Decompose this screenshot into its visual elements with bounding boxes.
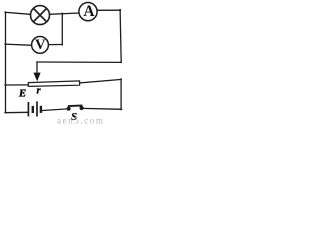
switch S: lever bbox=[68, 105, 83, 108]
wire: bar right end to right vertical bbox=[80, 79, 121, 83]
rheostat body (slide rheostat bar) bbox=[28, 81, 79, 87]
wire: voltmeter branch right bbox=[48, 44, 62, 46]
svg-text:aen5.com: aen5.com bbox=[57, 116, 105, 126]
wire: bar left end to left vertical bbox=[5, 84, 28, 86]
battery cell bar short thick 1 bbox=[32, 106, 34, 113]
wire: bottom right segment (corner to switch) bbox=[83, 107, 121, 110]
wire: right vertical upper (ammeter down to wiper wire) bbox=[120, 10, 121, 63]
battery cell bar short thick 2 bbox=[40, 106, 42, 113]
voltmeter V bbox=[32, 37, 49, 54]
wire: wiper wire (horizontal to rheostat arrow) bbox=[37, 61, 121, 63]
ammeter A bbox=[79, 3, 97, 21]
wire: right vertical lower bbox=[120, 79, 122, 110]
wire: ammeter to top-right corner bbox=[97, 9, 120, 11]
battery cell bar long 2 bbox=[36, 101, 38, 116]
svg-text:E: E bbox=[18, 87, 26, 99]
lamp (circle with X) bbox=[31, 6, 50, 25]
svg-text:A: A bbox=[83, 3, 95, 20]
wire: top-left to lamp bbox=[5, 12, 31, 14]
wire: rheostat wiper arrow shaft bbox=[36, 62, 38, 75]
wire: switch to battery bbox=[41, 109, 67, 111]
battery cell bar long 1 bbox=[27, 102, 29, 116]
switch S: right contact dot bbox=[80, 106, 84, 110]
rheostat wiper arrowhead bbox=[33, 73, 40, 82]
svg-text:V: V bbox=[35, 37, 46, 53]
wire: lamp to ammeter (node with voltmeter branch at x=62) bbox=[49, 13, 79, 14]
wire: left vertical bbox=[5, 12, 7, 113]
switch S: left contact dot bbox=[67, 107, 71, 111]
wire: voltmeter branch vertical up to top wire bbox=[61, 13, 63, 45]
wire: voltmeter branch left bbox=[5, 44, 32, 45]
wire: battery to bottom-left corner bbox=[5, 111, 28, 113]
